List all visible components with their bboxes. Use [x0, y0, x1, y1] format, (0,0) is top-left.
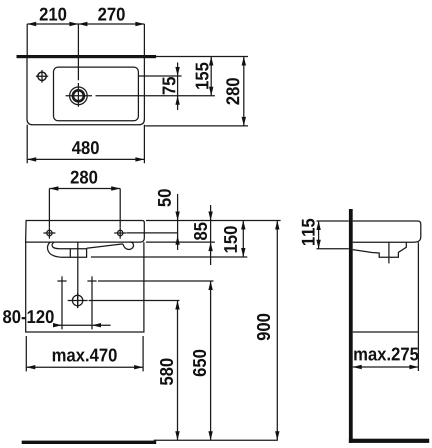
- tap hole right (front): [118, 230, 123, 235]
- label 210: [40, 8, 67, 21]
- wall extension line (top of 155/280): [156, 56, 248, 58]
- extension slab-bottom (for 85): [146, 241, 215, 243]
- label 480: [72, 141, 99, 154]
- extension tap-hole line (for 50): [127, 232, 178, 234]
- dimension 115 (side, inside arrows): [318, 221, 320, 249]
- dimension 80-120 (front, outside arrows): [54, 324, 111, 326]
- extension line centre (drain axis): [77, 24, 79, 80]
- dimension line 210/270 (plan top): [27, 23, 144, 25]
- dimension 280 (plan, vertical): [243, 57, 245, 126]
- wall line (side view, thick): [349, 209, 353, 443]
- washbasin outer rim (plan): [27, 57, 144, 125]
- extension drain-bottom (for 150): [91, 256, 247, 258]
- siphon hole (front, circle-cross): [72, 295, 82, 305]
- dimension 900 (vertical): [276, 221, 278, 441]
- vanity space box bottom (side view): [353, 331, 419, 333]
- extension line right (x=144.4, also 480 ext): [143, 24, 145, 163]
- extension lines to tap holes: [49, 189, 120, 228]
- fixing hole (plan, left shelf): [38, 72, 46, 80]
- floor line (front view, thick): [22, 441, 157, 444]
- label 150: [224, 226, 237, 252]
- extension verticals from fixing crosses: [62, 286, 92, 330]
- underside slope to overflow (front): [87, 244, 123, 248]
- drain pipe left edge (front): [69, 249, 71, 258]
- label 50: [158, 189, 171, 206]
- overflow outlet hook (front): [123, 242, 134, 250]
- extension front-edge (side, for max.275): [417, 242, 419, 371]
- extension line for 75 (from bowl edge): [139, 75, 182, 77]
- dimension 650 (vertical): [210, 281, 212, 440]
- dimension 480 (plan bottom): [27, 158, 144, 160]
- arrowheads 210/270: [27, 22, 144, 26]
- label 80-120: [3, 310, 54, 323]
- extension line rim bottom (plan, for 280): [145, 125, 248, 127]
- dimension max.470: [26, 366, 143, 368]
- wall line (plan view, thick): [17, 55, 157, 58]
- washbasin profile (side view): [353, 221, 421, 242]
- dimension 280 (front view, tap holes): [49, 188, 120, 190]
- drain axis (side view): [388, 242, 390, 263]
- label 280 (front): [71, 171, 98, 184]
- label 650: [193, 350, 206, 376]
- tap hole left (front): [47, 230, 52, 235]
- siphon inner contour (front): [52, 242, 87, 249]
- extension rim-top (side, for 115): [317, 220, 349, 222]
- label 75: [163, 77, 176, 94]
- dimension 50 (front, outside arrows): [177, 194, 179, 250]
- extension underside (side, for 115): [317, 248, 349, 250]
- extension lines max.470: [26, 336, 143, 371]
- extension fixing line (for 650): [98, 280, 214, 282]
- vanity space box (front view): [26, 242, 144, 332]
- dimension max.275: [353, 366, 419, 368]
- label max.470: [53, 348, 117, 361]
- siphon outer contour (front): [47, 242, 86, 257]
- dimension 580 (vertical): [177, 301, 179, 441]
- wall fixing cross right (front): [87, 276, 96, 285]
- label 85: [194, 223, 207, 241]
- basin bowl inner rim (plan): [54, 67, 139, 121]
- extension siphon line (for 580): [89, 300, 180, 302]
- floor extension line (thin): [154, 439, 278, 441]
- label 155: [196, 63, 209, 89]
- dimension 75 (vertical, outside arrows): [177, 63, 179, 111]
- label 580: [160, 358, 173, 385]
- label 115: [302, 219, 315, 245]
- wall fixing cross left (front): [57, 276, 66, 285]
- drain centre line (front): [77, 242, 79, 308]
- underside contour (side view): [353, 242, 407, 257]
- dimension 150 (front, inside arrows): [242, 221, 244, 258]
- dimension 155 (vertical, inside arrows): [210, 57, 212, 96]
- label max.275: [354, 347, 418, 360]
- washbasin slab (front view): [26, 221, 145, 243]
- extension line left (x=27.2, also 480 ext): [26, 24, 28, 163]
- dimension 85 (front, outside arrows): [210, 205, 212, 265]
- extension line from drain centre (bottom of 75/155): [96, 95, 215, 97]
- floor line (side view, thick): [349, 439, 429, 443]
- label 900: [257, 314, 270, 341]
- drain hole (plan): [70, 87, 88, 105]
- label 280 (plan): [226, 78, 239, 105]
- extension rim-top to 900: [146, 220, 281, 222]
- label 270: [98, 8, 125, 21]
